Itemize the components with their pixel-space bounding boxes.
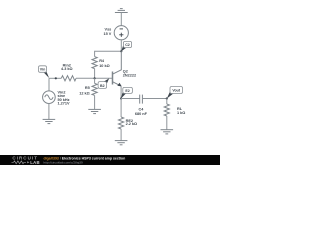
svg-text:2N2222: 2N2222 (123, 73, 136, 77)
svg-text:680 nF: 680 nF (135, 112, 148, 116)
svg-text:12 kΩ: 12 kΩ (79, 92, 89, 96)
svg-text:E2: E2 (125, 89, 129, 93)
svg-text:LAB: LAB (30, 160, 40, 165)
node E2 label (121, 87, 132, 98)
svg-text:10 kΩ: 10 kΩ (99, 64, 109, 68)
wire: Rin2 to base junction (76, 77, 112, 79)
wire: top rail (95, 50, 122, 52)
resistor R5 (92, 83, 97, 95)
source Vin2 (sine) (43, 91, 56, 104)
svg-text:R5: R5 (85, 86, 90, 90)
wire: RE2 top (120, 99, 122, 118)
svg-text:Vin: Vin (40, 68, 46, 72)
voltage source Vss 15 V (114, 26, 128, 40)
wire: rail down to R4 (94, 51, 96, 57)
svg-text:B2: B2 (100, 84, 105, 88)
ground (under RL) (161, 130, 174, 134)
wire: C4 to Vout (142, 98, 166, 100)
svg-text:1 kΩ: 1 kΩ (177, 111, 185, 115)
node C2 label (121, 41, 131, 51)
ground (under RE2) (115, 141, 128, 145)
resistor RL (164, 104, 169, 116)
svg-text:1.271V: 1.271V (58, 101, 71, 105)
node B2 label (98, 78, 109, 88)
wire: R5 to ground (94, 95, 96, 109)
ground (inverted, above Vss source) (115, 9, 128, 13)
wire: source to C2 node (120, 40, 122, 52)
resistor Rin2 (61, 76, 76, 81)
wire: RL to ground (166, 116, 168, 130)
node Vout label (167, 87, 183, 99)
wire: RE2 to ground (120, 129, 122, 141)
wire: source to ground (48, 104, 50, 120)
junction base divider (94, 77, 96, 79)
node Vin label (39, 66, 50, 78)
svg-text:Vout: Vout (172, 89, 181, 93)
svg-text:2.2 kΩ: 2.2 kΩ (126, 122, 138, 126)
wire: R4 to base node (94, 69, 96, 79)
resistor RE2 (119, 117, 124, 129)
ground (under Vin2) (43, 119, 56, 123)
wire: E2 to C4 (121, 98, 139, 100)
wire: Vout to RL (166, 99, 168, 105)
wire: input node down to source (48, 78, 50, 91)
junction C2 (120, 50, 122, 52)
wire: input node to Rin2 (49, 77, 61, 79)
ground (under R5) (88, 109, 101, 113)
svg-text:15 V: 15 V (103, 32, 111, 36)
resistor R4 (92, 57, 97, 69)
wire: Vss ground stem (120, 13, 122, 26)
capacitor C4 (140, 95, 143, 104)
junction E2 (120, 97, 122, 99)
footer bar (0, 155, 220, 165)
svg-text:http://circuitlab.com/c/28aj39: http://circuitlab.com/c/28aj39 (44, 160, 83, 164)
svg-text:C2: C2 (125, 43, 130, 47)
transistor Q2 2N2222 (113, 51, 122, 86)
wire: emitter down to E2 (120, 86, 122, 98)
junction Vout (166, 97, 168, 99)
junction input (55, 77, 57, 79)
svg-text:4.3 kΩ: 4.3 kΩ (61, 67, 73, 71)
